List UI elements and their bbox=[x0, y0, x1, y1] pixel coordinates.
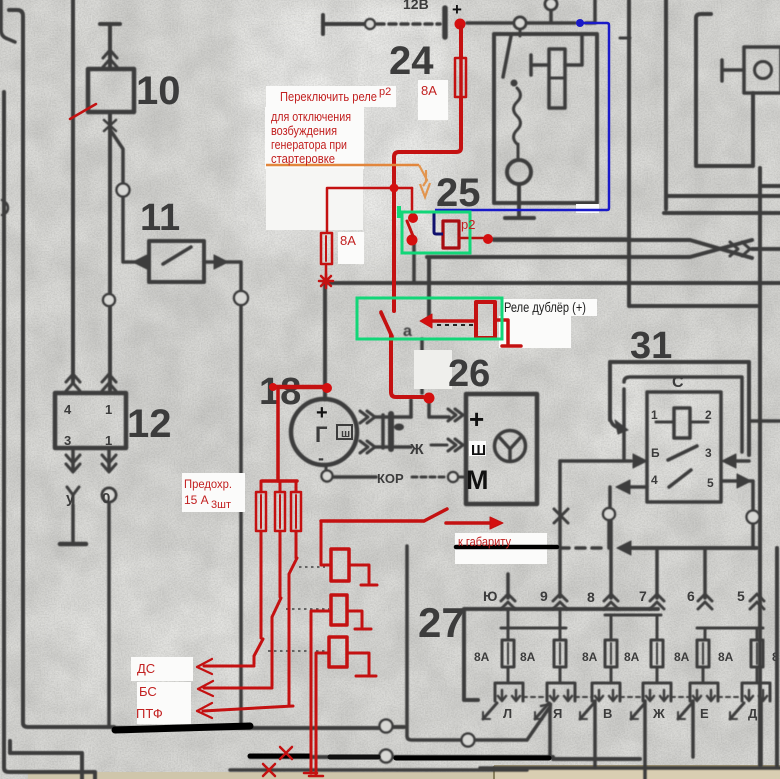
battery 24 terminal circle bbox=[365, 19, 375, 29]
svg-text:КОР: КОР bbox=[377, 471, 404, 486]
wire left border outer bbox=[4, 92, 95, 779]
node connector O bbox=[234, 291, 248, 305]
wire KOR row bbox=[333, 475, 376, 479]
red fuse P1 bbox=[256, 492, 266, 531]
wire switch 11 right bbox=[204, 262, 241, 725]
svg-text:25: 25 bbox=[436, 171, 481, 215]
svg-text:3: 3 bbox=[64, 433, 71, 448]
component 31 second box bbox=[624, 377, 742, 460]
red fuse feed bar bbox=[262, 479, 297, 483]
fuse F1 8A bbox=[502, 640, 514, 667]
lower wires of block 27 bbox=[595, 701, 761, 779]
wire from p2 contact to bus bbox=[493, 237, 626, 241]
svg-text:С: С bbox=[672, 374, 684, 391]
node connector O bbox=[747, 511, 760, 524]
wires fuse to connectors bbox=[508, 667, 757, 681]
red wire to generator node bbox=[391, 336, 423, 397]
red star junction on bus bbox=[319, 274, 333, 288]
red fuse P2 bbox=[275, 492, 285, 531]
generator sh box bbox=[337, 425, 352, 439]
wire bus to box12 terminal 4 bbox=[71, 0, 75, 383]
svg-text:а: а bbox=[403, 323, 412, 340]
red wire P2 to blade B bbox=[272, 531, 281, 686]
wire right edge of outer box bbox=[749, 419, 780, 423]
svg-text:10: 10 bbox=[136, 69, 181, 113]
red wire P1 to blade C bbox=[254, 531, 263, 664]
component 11 switch box bbox=[149, 241, 204, 282]
red x mark 1 bbox=[280, 747, 292, 759]
svg-text:8А: 8А bbox=[421, 83, 437, 98]
relay 25 box bbox=[494, 34, 597, 203]
component 31 blades bbox=[668, 446, 697, 487]
wire long vertical right x761 bbox=[758, 168, 762, 765]
wire x550 drop bbox=[548, 704, 552, 757]
svg-text:5: 5 bbox=[737, 588, 745, 604]
svg-text:12В: 12В bbox=[403, 0, 429, 12]
svg-text:Г: Г bbox=[315, 422, 328, 447]
svg-text:27: 27 bbox=[418, 599, 465, 646]
white patch under relay 25 bbox=[576, 204, 599, 213]
svg-text:Л: Л bbox=[503, 706, 512, 721]
red relay dubl arrow bbox=[428, 319, 476, 323]
arrow into node bbox=[617, 541, 631, 555]
node connector top edge bbox=[545, 0, 557, 10]
svg-text:ш: ш bbox=[341, 428, 350, 440]
svg-text:8: 8 bbox=[772, 650, 779, 664]
svg-text:8А: 8А bbox=[340, 233, 356, 248]
svg-text:у: у bbox=[66, 490, 75, 507]
bus wire y240 from relay p2 contact bbox=[494, 240, 752, 258]
wires below box12 bbox=[60, 448, 86, 544]
bottom bus y770 bbox=[230, 768, 527, 772]
red arrow BS bbox=[204, 687, 272, 690]
bus wire y283 bbox=[324, 281, 780, 285]
relay 25 capacitor element bbox=[531, 36, 582, 75]
relay 25 ground bbox=[505, 184, 534, 218]
svg-text:12: 12 bbox=[127, 402, 172, 446]
node half connector left edge bbox=[2, 200, 8, 215]
wire into 31 from x560 bbox=[560, 459, 631, 463]
component 12 box bbox=[55, 393, 126, 448]
svg-text:24: 24 bbox=[389, 39, 434, 83]
wire below green relay box x414 bbox=[414, 244, 422, 393]
svg-text:18: 18 bbox=[259, 371, 301, 413]
bottom tan strip bbox=[28, 772, 780, 779]
green highlight box relay dubl bbox=[357, 298, 502, 339]
gray dotted switch links bbox=[268, 567, 329, 651]
red wire fuse to corner bbox=[394, 97, 461, 311]
red wire P3 to blade A bbox=[289, 531, 297, 705]
red wire battery down bbox=[459, 27, 463, 58]
white patch BS PTF bbox=[137, 682, 191, 724]
node connector 0 bbox=[380, 750, 393, 763]
svg-text:Ш: Ш bbox=[471, 442, 486, 459]
svg-text:+: + bbox=[316, 402, 328, 424]
svg-text:4: 4 bbox=[64, 402, 72, 417]
svg-text:8: 8 bbox=[587, 589, 595, 605]
node connector on wire x108 bbox=[103, 294, 115, 306]
wire 31 bottom left out bbox=[628, 485, 647, 489]
node connector O bbox=[380, 720, 393, 733]
red coil p2 bbox=[443, 221, 459, 248]
sensor box with circle top right bbox=[744, 47, 780, 93]
svg-text:ДС: ДС bbox=[137, 661, 155, 676]
white patch DS bbox=[131, 657, 193, 681]
chevron into box26 plus bbox=[448, 409, 463, 421]
svg-text:Предохр.: Предохр. bbox=[184, 477, 232, 491]
bus y209 bbox=[664, 211, 780, 215]
svg-text:1: 1 bbox=[651, 408, 658, 422]
svg-text:8А: 8А bbox=[520, 650, 536, 664]
wire box10 down with cross bbox=[108, 112, 112, 390]
red lamp 3 connector bbox=[329, 637, 347, 667]
node connector O bbox=[117, 184, 130, 197]
svg-text:р2: р2 bbox=[379, 86, 391, 98]
svg-text:26: 26 bbox=[448, 353, 490, 395]
svg-text:генератора при: генератора при bbox=[271, 137, 347, 152]
riser wires to red node bbox=[411, 400, 449, 417]
svg-text:6: 6 bbox=[687, 588, 695, 604]
red relay dubl blade bbox=[381, 312, 392, 337]
blue wire from relay to p2 bbox=[435, 23, 609, 210]
wire 31 bottom right out bbox=[721, 481, 753, 548]
capacitor chevrons from generator bbox=[360, 411, 375, 423]
block 27 frame bbox=[464, 609, 658, 700]
svg-text:8А: 8А bbox=[624, 650, 640, 664]
wheel symbol in box26 bbox=[495, 431, 526, 462]
bus y548 dashed bbox=[560, 546, 605, 550]
junction cross on riser bbox=[554, 509, 568, 523]
white patch relay dubl label bbox=[502, 299, 597, 316]
svg-text:возбуждения: возбуждения bbox=[271, 123, 337, 138]
black marker bus 1 bbox=[115, 726, 250, 730]
black marker bus 2 bbox=[250, 754, 310, 759]
white patch left of 26 bbox=[414, 350, 452, 389]
red lamp 1 connector bbox=[321, 521, 331, 565]
wire out of 31 right bbox=[722, 454, 736, 468]
generator bottom terminal bbox=[325, 465, 328, 470]
svg-text:15 А: 15 А bbox=[184, 493, 209, 507]
block 27 fuse feeds bbox=[508, 609, 757, 640]
red junction dot bbox=[390, 184, 399, 193]
red fuse 8A top bbox=[455, 58, 466, 97]
connector arrows bbox=[502, 690, 763, 698]
svg-text:для отключения: для отключения bbox=[271, 109, 351, 124]
svg-text:8А: 8А bbox=[674, 650, 690, 664]
green tick bbox=[397, 206, 401, 218]
wire bottom-left nest bbox=[10, 741, 82, 779]
red feet at bottom bbox=[304, 773, 323, 776]
wire box10 feed with T-bar bbox=[100, 24, 120, 68]
green highlight box p2 bbox=[402, 212, 470, 253]
red mark on box10 bbox=[70, 104, 96, 119]
node symbol y bbox=[67, 487, 79, 503]
arrows into box12 bbox=[66, 374, 80, 391]
svg-text:7: 7 bbox=[639, 588, 647, 604]
red fuse 8A mid bbox=[321, 233, 332, 264]
red node at generator riser bbox=[424, 393, 435, 404]
svg-text:8А: 8А bbox=[474, 650, 490, 664]
red relay dubl lead and foot bbox=[495, 320, 521, 346]
svg-text:Ж: Ж bbox=[652, 706, 665, 721]
fuse F5 8A bbox=[697, 640, 709, 667]
red wire fuse feeder vertical bbox=[276, 389, 280, 481]
arrow into switch 11 bbox=[133, 255, 147, 269]
svg-text:4: 4 bbox=[651, 473, 658, 487]
svg-text:11: 11 bbox=[140, 197, 180, 239]
node curl bbox=[603, 508, 615, 520]
svg-text:8А: 8А bbox=[718, 650, 734, 664]
svg-text:8А: 8А bbox=[582, 650, 598, 664]
bracket top right bbox=[696, 14, 753, 166]
svg-text:Я: Я bbox=[553, 706, 562, 721]
component 31 inner box bbox=[647, 392, 721, 502]
svg-text:5: 5 bbox=[707, 476, 714, 490]
svg-text:9: 9 bbox=[540, 588, 548, 604]
red arrow DS bbox=[204, 665, 254, 668]
red wire fuse2 to bus bbox=[325, 264, 328, 278]
bottom bus right y768 bbox=[480, 766, 780, 770]
navy wire to coil p2 bbox=[434, 211, 443, 234]
red branch wire thin bbox=[327, 188, 412, 232]
red feeder line to lamps bbox=[321, 509, 447, 521]
red arrow PTF bbox=[203, 706, 293, 711]
red blade p2 switch bbox=[407, 221, 413, 236]
red switch blade in green box p2 bbox=[381, 313, 392, 336]
black underline k gabaritu bbox=[456, 545, 557, 550]
bottom bus y757 bbox=[250, 757, 640, 759]
wire battery to relay 25 bbox=[467, 0, 595, 23]
battery 24 plus plate bbox=[442, 8, 448, 37]
red wire 18 horizontal bbox=[273, 385, 327, 390]
wire y740 to blade bbox=[475, 708, 549, 740]
capacitor wires and plates bbox=[375, 417, 411, 447]
relay 25 switch blade bbox=[503, 36, 511, 77]
orange arrow bbox=[419, 165, 427, 186]
white patch k gabaritu bbox=[455, 533, 547, 564]
component 31 outer box bbox=[610, 362, 749, 455]
white patch 8A mid bbox=[338, 232, 364, 264]
relay 25 coil wiggle bbox=[514, 88, 521, 144]
black marker bus 3 bbox=[396, 756, 549, 761]
bottom bus y727 bbox=[114, 727, 404, 728]
black marker bus 2b bbox=[330, 755, 378, 760]
drops to block 27 bbox=[508, 521, 705, 598]
wire top right riser x666 bbox=[664, 0, 668, 209]
component 31 outer box arrow bbox=[610, 418, 622, 428]
white patch 8A top bbox=[418, 80, 448, 120]
connector blades bbox=[483, 703, 744, 719]
svg-text:Реле дублёр (+): Реле дублёр (+) bbox=[504, 299, 586, 315]
wire x560 riser bbox=[558, 461, 562, 597]
svg-text:0: 0 bbox=[102, 490, 110, 507]
svg-text:+: + bbox=[469, 404, 484, 434]
red node battery plus bbox=[455, 19, 466, 30]
bus y196 bbox=[666, 194, 780, 198]
red lamp 2 connector bbox=[331, 595, 347, 625]
node connector O bbox=[462, 734, 475, 747]
bus y548 solid bbox=[629, 546, 757, 550]
relay 25 lamp circle bbox=[517, 144, 520, 160]
chevron into box26 sh bbox=[448, 439, 463, 451]
bus wire y257 bbox=[427, 240, 752, 257]
svg-text:БС: БС bbox=[139, 684, 157, 699]
wire box10 branch to switch 11 bbox=[111, 131, 136, 262]
red relay dubl coil bbox=[476, 302, 495, 338]
wire right edge x777 bbox=[775, 548, 779, 766]
terminal arrows into 27 bbox=[501, 594, 515, 609]
svg-text:В: В bbox=[603, 706, 612, 721]
svg-text:31: 31 bbox=[630, 325, 672, 367]
white patch top text block bbox=[266, 86, 396, 107]
wire top right riser x629 bbox=[629, 0, 757, 306]
fuse F3 8A bbox=[605, 640, 617, 667]
svg-text:2: 2 bbox=[705, 408, 712, 422]
svg-text:+: + bbox=[452, 0, 462, 19]
fuse F2 8A bbox=[554, 640, 566, 667]
red arrow to gabarit bbox=[446, 521, 490, 525]
svg-text:Б: Б bbox=[651, 446, 660, 460]
svg-text:к габариту: к габариту bbox=[458, 534, 511, 549]
node symbol 0 bbox=[102, 488, 116, 502]
red x mark 2 bbox=[263, 764, 275, 776]
svg-text:ПТФ: ПТФ bbox=[136, 706, 163, 721]
svg-text:Ю: Ю bbox=[483, 588, 497, 604]
svg-text:стартеровке: стартеровке bbox=[271, 151, 335, 166]
ground symbol below box12 left bbox=[60, 542, 86, 547]
red fuse stubs bbox=[261, 481, 296, 492]
box26 sh bbox=[469, 441, 486, 456]
wire generator bus x325 bbox=[323, 283, 327, 399]
black dashes under red arrow bbox=[437, 324, 474, 326]
svg-text:Д: Д bbox=[748, 706, 758, 721]
red coil p2 lead bbox=[459, 237, 483, 240]
dashed link between connectors bbox=[523, 696, 742, 698]
orange underline bbox=[266, 164, 419, 167]
wire edge fragment top left bbox=[1, 0, 15, 42]
generator 18 circle bbox=[291, 399, 357, 465]
svg-text:Е: Е bbox=[700, 706, 709, 721]
node connector relay input bbox=[514, 17, 526, 29]
arrow out of switch 11 bbox=[214, 255, 228, 269]
svg-text:3: 3 bbox=[705, 446, 712, 460]
svg-text:1: 1 bbox=[105, 402, 112, 417]
twisted pair crossing bbox=[730, 242, 750, 256]
vertical x407 bbox=[407, 546, 461, 740]
component 31 coil bbox=[674, 408, 690, 438]
component 10 box bbox=[88, 69, 134, 112]
connector boxes row bbox=[495, 683, 523, 701]
svg-text:Ж: Ж bbox=[409, 441, 424, 458]
svg-text:1: 1 bbox=[105, 433, 112, 448]
red fuse P3 bbox=[291, 492, 301, 531]
red contact dots p2 switch bbox=[408, 213, 418, 223]
fuse F4 8A bbox=[651, 640, 663, 667]
svg-text:-: - bbox=[318, 448, 324, 468]
component 26 box bbox=[466, 394, 537, 504]
white patch predohr bbox=[182, 473, 245, 512]
fuse F6 8A bbox=[751, 640, 763, 667]
battery 24 dashed link bbox=[377, 22, 440, 26]
red wire branch to p2 switch bbox=[411, 188, 414, 212]
svg-text:Переключить реле: Переключить реле bbox=[280, 89, 377, 104]
svg-text:М: М bbox=[466, 465, 489, 495]
battery 24 left T-bar bbox=[323, 15, 364, 34]
svg-text:3шт: 3шт bbox=[211, 499, 231, 511]
svg-text:р2: р2 bbox=[461, 217, 475, 232]
wire left border inner bbox=[9, 10, 114, 727]
